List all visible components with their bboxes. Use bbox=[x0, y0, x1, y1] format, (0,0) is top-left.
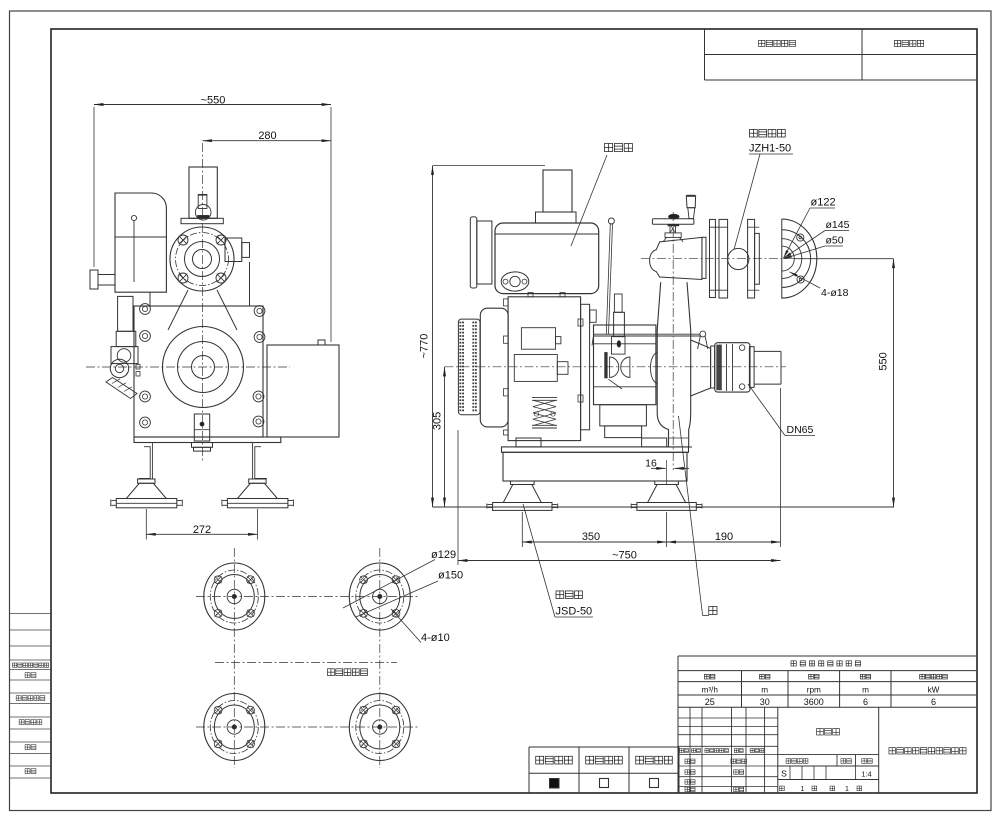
svg-text:JZH1-50: JZH1-50 bbox=[749, 143, 791, 155]
crank rod bbox=[688, 208, 695, 219]
svg-text:550: 550 bbox=[878, 352, 890, 370]
discharge flange end view bbox=[781, 219, 783, 299]
product name 船用柴油机应急消防泵 bbox=[889, 748, 896, 754]
flare to flywheel left bbox=[168, 290, 188, 330]
joint flange 4 bbox=[755, 233, 760, 284]
gland bbox=[612, 337, 626, 355]
pump casing column left bbox=[657, 282, 668, 447]
injection pump body bbox=[118, 296, 133, 331]
dim 272 extensions bbox=[145, 509, 147, 540]
svg-text:ø150: ø150 bbox=[438, 570, 463, 582]
joint flange 3 bbox=[748, 219, 755, 298]
body upper right edge bbox=[249, 262, 251, 306]
DN65 coupling left collar bbox=[711, 346, 715, 388]
dim 190 line bbox=[667, 541, 781, 543]
valve handwheel bar bbox=[652, 219, 694, 225]
joint flange 2 bbox=[719, 219, 728, 298]
crankshaft centerline bbox=[445, 366, 787, 368]
centerline vertical right bbox=[379, 548, 381, 768]
svg-text:4-ø10: 4-ø10 bbox=[421, 632, 450, 644]
output shaft box bbox=[194, 414, 209, 441]
discharge centerline bbox=[641, 258, 795, 260]
flywheel circle mid bbox=[178, 342, 229, 393]
table header 单位名称 bbox=[894, 40, 900, 46]
cell 外形图 bbox=[817, 728, 824, 735]
valve bonnet bbox=[663, 237, 683, 242]
cell 图样标记 bbox=[786, 759, 791, 764]
approved stage filled square bbox=[550, 779, 560, 789]
front base plate bbox=[134, 437, 281, 443]
exhaust stack side bbox=[543, 170, 572, 212]
injection pump circle bbox=[117, 349, 131, 363]
foundation bolt flange top-left bbox=[204, 563, 265, 630]
discharge pipe centerline bbox=[672, 212, 674, 470]
crankcase upper window bbox=[521, 328, 555, 350]
dim 350 extensions bbox=[521, 512, 523, 547]
shaft box dot bbox=[200, 422, 204, 426]
label 认可阶段 bbox=[536, 756, 544, 764]
construction stage empty square bbox=[600, 779, 609, 788]
side right vibration mount bbox=[655, 481, 679, 485]
body upper left edge bbox=[149, 292, 151, 306]
stuffing box bbox=[614, 312, 625, 336]
svg-text:4-ø18: 4-ø18 bbox=[821, 287, 849, 299]
front left vibration mount bbox=[138, 479, 155, 483]
foundation bolt flange bottom-left bbox=[204, 694, 265, 761]
svg-text:rpm: rpm bbox=[807, 686, 821, 695]
svg-text:6: 6 bbox=[931, 697, 936, 707]
dim 305 line bbox=[444, 367, 446, 507]
svg-text:272: 272 bbox=[193, 524, 211, 536]
bracket top bolt bbox=[590, 310, 596, 322]
dim ~770 extension top bbox=[433, 165, 545, 167]
battery box tab bbox=[318, 340, 325, 345]
foundation bolt flange top-right bbox=[349, 563, 410, 630]
svg-text:25: 25 bbox=[705, 697, 715, 707]
svg-text:280: 280 bbox=[258, 130, 276, 142]
approval stage table bbox=[528, 747, 530, 793]
priming rod bbox=[593, 333, 700, 335]
drawing version table bbox=[704, 29, 706, 80]
joint flange 1 bbox=[710, 219, 716, 297]
svg-text:ø145: ø145 bbox=[826, 219, 850, 231]
svg-text:1: 1 bbox=[845, 786, 849, 793]
front view vertical centerline bbox=[202, 143, 204, 463]
front right vibration mount bbox=[249, 479, 266, 483]
engine body front bbox=[134, 306, 263, 437]
svg-text:1:4: 1:4 bbox=[861, 769, 871, 778]
svg-text:~770: ~770 bbox=[419, 334, 431, 359]
muffler stud bbox=[198, 195, 207, 209]
outlet flange bolt circle bbox=[176, 233, 229, 286]
performance parameter table grid bbox=[678, 655, 976, 657]
outlet flange bolts bbox=[178, 235, 188, 245]
governor strut hatched bbox=[106, 378, 137, 399]
svg-text:30: 30 bbox=[760, 697, 770, 707]
title block grid bbox=[689, 707, 691, 793]
dim 350 line bbox=[522, 541, 666, 543]
exhaust stack base bbox=[536, 212, 577, 223]
muffler stack front bbox=[189, 167, 217, 218]
svg-text:ø50: ø50 bbox=[826, 235, 844, 247]
pump bracket bottom plate bbox=[594, 386, 656, 388]
table title 主要技术性能参数 bbox=[791, 661, 796, 666]
engine mount plate right bracket bbox=[225, 238, 242, 262]
label 泵 bbox=[709, 607, 717, 615]
engine mounting pads bbox=[516, 438, 541, 447]
handwheel hub nut bbox=[669, 214, 680, 219]
engine side oval flange bbox=[501, 272, 529, 291]
side left vibration mount bbox=[511, 481, 535, 485]
battery box front bbox=[267, 345, 339, 437]
throttle rod knob bbox=[608, 218, 614, 224]
bell band bolts bbox=[578, 319, 583, 326]
DN65 coupling sleeve bbox=[715, 343, 750, 392]
engine cover seam bbox=[495, 233, 599, 235]
air cleaner bbox=[470, 217, 477, 288]
impeller section bbox=[604, 352, 607, 378]
outlet flange circle mid bbox=[185, 242, 220, 277]
pump bracket foot bbox=[600, 405, 647, 426]
svg-text:3600: 3600 bbox=[804, 697, 824, 707]
label 泵轴中心线 bbox=[328, 669, 335, 676]
signature rows 设计校对审核工艺 bbox=[685, 759, 690, 763]
label 施工阶段 bbox=[586, 756, 594, 764]
suction pipe end bbox=[754, 350, 781, 352]
front view horizontal centerline bbox=[86, 366, 290, 368]
grease cup bbox=[614, 294, 622, 312]
valve packing bbox=[665, 233, 681, 238]
dim ~550 right extension bbox=[330, 107, 332, 342]
governor roller circles bbox=[110, 359, 128, 377]
svg-text:6: 6 bbox=[863, 697, 868, 707]
label 减震器 bbox=[556, 591, 564, 599]
outlet flange circle outer bbox=[170, 227, 234, 291]
svg-text:ø122: ø122 bbox=[811, 197, 836, 209]
centerline horizontal top bbox=[196, 596, 420, 598]
fuel dipstick bbox=[131, 215, 136, 220]
cell 共1张 第1张 bbox=[780, 786, 785, 791]
flywheel circle outer bbox=[163, 327, 244, 408]
flywheel end housing bbox=[480, 308, 508, 427]
label 柴油机 bbox=[605, 144, 613, 152]
svg-text:~550: ~550 bbox=[201, 95, 226, 107]
dim 550 line bbox=[893, 259, 895, 507]
crankcase side bbox=[508, 297, 580, 441]
completion stage empty square bbox=[650, 779, 659, 788]
base angle right bbox=[255, 447, 267, 479]
diesel engine body side bbox=[495, 223, 599, 294]
DN65 coupling right plate bbox=[749, 347, 754, 388]
svg-text:kW: kW bbox=[928, 686, 940, 695]
left revision strip rows bbox=[10, 613, 51, 615]
flare to flywheel right bbox=[217, 290, 237, 330]
pump casing column right bbox=[687, 282, 691, 447]
svg-text:~750: ~750 bbox=[612, 549, 637, 561]
cooling fins bbox=[458, 319, 480, 415]
pump casing foot bbox=[666, 446, 693, 448]
dim ~770 line bbox=[432, 166, 434, 508]
table header 图纸版本号 bbox=[759, 40, 765, 46]
flexible joint rubber ball bbox=[728, 248, 749, 269]
volute eye arc bbox=[651, 352, 658, 384]
centerline horizontal bottom bbox=[196, 726, 420, 728]
svg-text:S: S bbox=[781, 769, 787, 779]
bell housing band bbox=[581, 304, 590, 430]
flange extension line bbox=[794, 258, 894, 260]
dim ~750 extension bbox=[457, 430, 459, 565]
muffler nut circle bbox=[195, 205, 211, 221]
svg-text:JSD-50: JSD-50 bbox=[556, 606, 593, 618]
crankcase bolt nubs bbox=[504, 299, 509, 306]
ground reference line bbox=[433, 506, 895, 508]
svg-text:190: 190 bbox=[715, 531, 733, 543]
fuel tank seam bbox=[115, 236, 166, 238]
muffler nut dark bbox=[198, 215, 210, 218]
svg-text:305: 305 bbox=[432, 412, 444, 430]
crankcase top bolts bbox=[528, 293, 533, 297]
centerline vertical left bbox=[233, 548, 235, 768]
suction cone bbox=[691, 340, 711, 348]
dim ~550 line bbox=[94, 104, 331, 106]
svg-text:16: 16 bbox=[645, 457, 657, 469]
svg-text:m³/h: m³/h bbox=[702, 686, 719, 695]
side hex bolts bbox=[140, 304, 151, 315]
left strip labels bbox=[12, 663, 16, 667]
base flange plate bbox=[502, 447, 689, 452]
front pedestal bbox=[192, 443, 213, 448]
dim 280 line bbox=[203, 140, 332, 142]
revision header row 标记处数更改文件号签字日期 bbox=[680, 749, 684, 753]
valve stem bbox=[669, 224, 671, 233]
crankshaft boss bbox=[514, 355, 557, 382]
label 挠性接头 bbox=[750, 129, 758, 137]
dim 190 extension bbox=[780, 388, 782, 547]
pump bracket top plate bbox=[594, 343, 656, 345]
label 完工阶段 bbox=[636, 756, 644, 764]
pump shaft centerline bbox=[215, 662, 397, 664]
priming knob bbox=[700, 331, 706, 337]
DN65 coupling details bbox=[716, 345, 722, 391]
svg-text:m: m bbox=[761, 686, 768, 695]
svg-text:DN65: DN65 bbox=[787, 424, 814, 436]
base angle left bbox=[139, 447, 151, 479]
governor bolts bbox=[136, 365, 140, 370]
dim 16 bbox=[651, 467, 666, 469]
svg-text:1: 1 bbox=[801, 786, 805, 793]
foundation bolt flange bottom-right bbox=[349, 694, 410, 761]
valve outlet flange bbox=[702, 237, 706, 278]
svg-text:m: m bbox=[862, 686, 869, 695]
dim 272 line bbox=[146, 533, 257, 535]
flywheel circle hub bbox=[192, 356, 215, 379]
parameter name row bbox=[704, 674, 709, 679]
outlet flange circle bore bbox=[193, 250, 212, 269]
vibration coil bbox=[532, 397, 557, 399]
dim ~750 line bbox=[458, 560, 781, 562]
throttle rod bbox=[606, 224, 610, 334]
joint bolt lines bbox=[710, 226, 728, 228]
fuel tank front bbox=[115, 193, 166, 292]
dim ~550 left extension bbox=[93, 107, 95, 267]
pump bracket frame bbox=[594, 325, 656, 405]
svg-text:350: 350 bbox=[582, 531, 600, 543]
crank knob bbox=[686, 196, 695, 208]
left stub fitting bbox=[90, 270, 98, 289]
base channel bbox=[503, 452, 687, 481]
valve body bbox=[650, 237, 702, 279]
muffler base plate bbox=[181, 218, 223, 223]
